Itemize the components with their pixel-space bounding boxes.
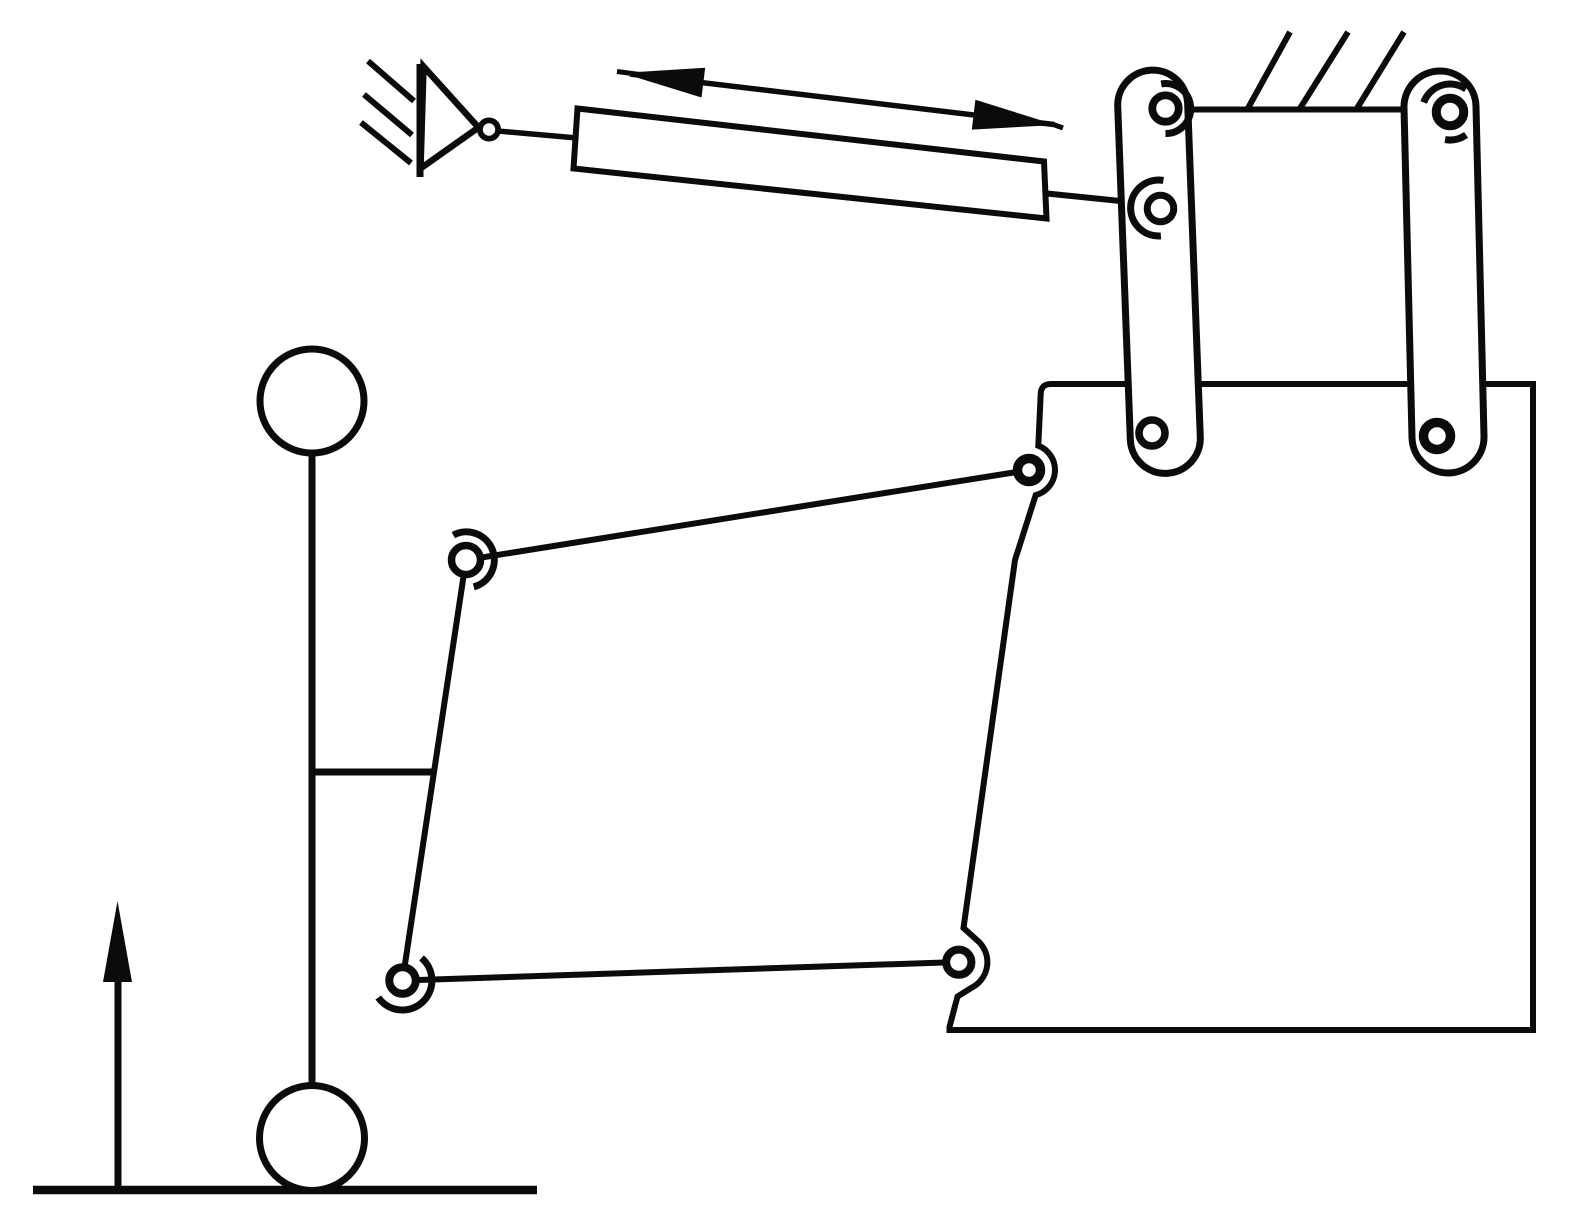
panel bottom pivot pin bbox=[946, 950, 971, 975]
hanger left bottom pin bbox=[1139, 420, 1165, 446]
cylinder body bbox=[574, 109, 1047, 219]
crank bottom pivot pin bbox=[389, 967, 416, 994]
stub wire to crank bbox=[309, 769, 436, 776]
coupler link top bbox=[466, 470, 1029, 560]
bottom wheel bbox=[260, 1086, 365, 1191]
hanger left top pin arc bbox=[1161, 84, 1190, 134]
pivot triangle bbox=[421, 67, 479, 169]
ceiling hatch 3 bbox=[1356, 32, 1404, 110]
ceiling hatch 2 bbox=[1299, 32, 1348, 110]
hanger right top pin arc upper bbox=[1424, 84, 1466, 102]
hanger right top pin bbox=[1436, 98, 1464, 126]
crank bottom pivot arc bbox=[378, 958, 432, 1010]
vertical arrow shaft bbox=[115, 978, 122, 1186]
wheel pole bbox=[309, 450, 316, 1086]
hanger link left body bbox=[1116, 69, 1201, 475]
crank link left bbox=[403, 560, 467, 981]
motion arrow right head bbox=[972, 100, 1056, 130]
hanger right bottom pin bbox=[1424, 423, 1451, 450]
coupler link bottom bbox=[403, 962, 960, 981]
vertical arrow head bbox=[103, 901, 132, 982]
crank top pivot pin bbox=[452, 546, 481, 575]
fixed support hatch 2 bbox=[364, 95, 412, 136]
ground line bbox=[33, 1186, 537, 1195]
cylinder tail rod bbox=[498, 131, 577, 138]
rocker rod to hanger bbox=[1047, 194, 1140, 204]
hanger left middle pin bbox=[1147, 195, 1174, 222]
crank top pivot arc bbox=[453, 532, 494, 587]
fixed support hatch 3 bbox=[361, 123, 411, 164]
panel top pivot pin bbox=[1018, 459, 1041, 482]
hanger left middle pin arc bbox=[1131, 180, 1164, 236]
ceiling line bbox=[1164, 107, 1447, 113]
platform panel bbox=[950, 384, 1534, 1030]
motion arrow line bbox=[630, 74, 1054, 125]
fixed support post bbox=[417, 64, 424, 177]
motion arrow left head bbox=[622, 68, 705, 98]
fixed support hatch 1 bbox=[368, 61, 414, 101]
motion arrow left tail bbox=[617, 72, 640, 75]
hanger left top pin bbox=[1152, 95, 1178, 121]
motion arrow right tip tail bbox=[1052, 124, 1063, 128]
hanger link right body bbox=[1403, 70, 1485, 474]
hanger right top pin arc lower bbox=[1445, 135, 1466, 140]
pivot pin bbox=[480, 120, 498, 138]
top ball bbox=[260, 349, 364, 453]
ceiling hatch 1 bbox=[1247, 32, 1290, 110]
